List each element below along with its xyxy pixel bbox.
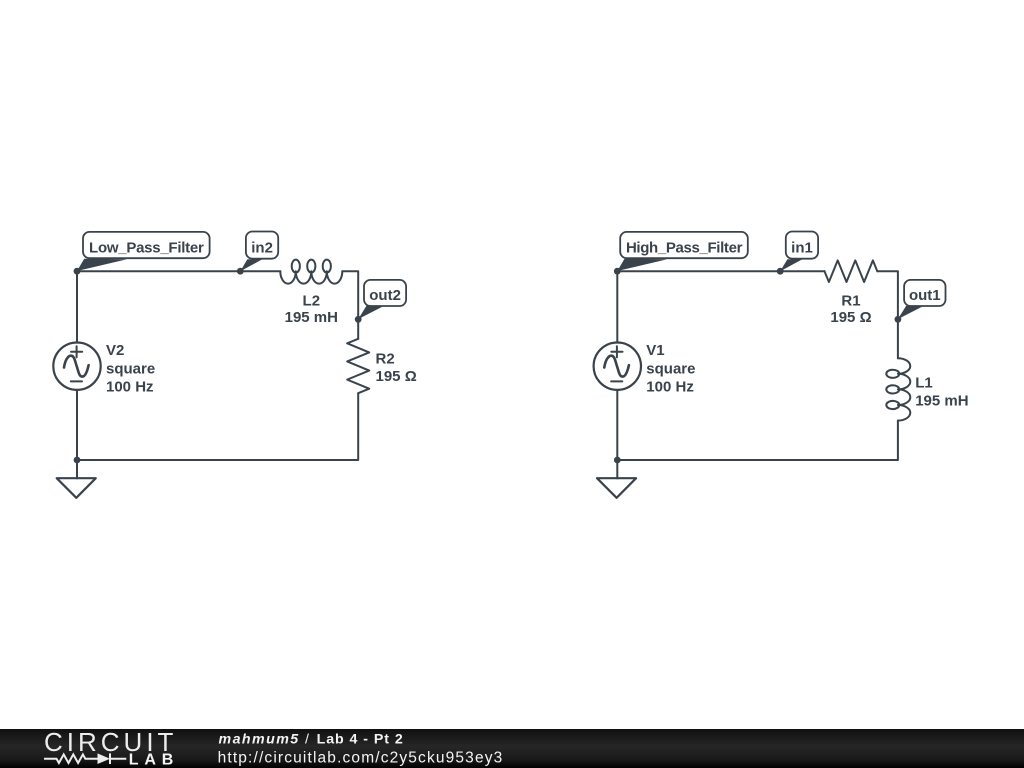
svg-text:195 Ω: 195 Ω bbox=[830, 309, 871, 326]
svg-text:http://circuitlab.com/c2y5cku9: http://circuitlab.com/c2y5cku953ey3 bbox=[218, 750, 504, 767]
svg-text:in1: in1 bbox=[791, 240, 813, 257]
svg-text:V2: V2 bbox=[106, 342, 124, 359]
svg-text:square: square bbox=[106, 360, 155, 377]
svg-text:R1: R1 bbox=[841, 293, 860, 310]
svg-text:195 mH: 195 mH bbox=[285, 309, 338, 326]
svg-text:195 mH: 195 mH bbox=[915, 392, 968, 409]
svg-text:R2: R2 bbox=[376, 350, 395, 367]
svg-text:L2: L2 bbox=[303, 293, 321, 310]
svg-text:out2: out2 bbox=[369, 287, 401, 304]
svg-text:L1: L1 bbox=[915, 374, 933, 391]
svg-text:Low_Pass_Filter: Low_Pass_Filter bbox=[89, 240, 204, 257]
svg-text:out1: out1 bbox=[909, 287, 941, 304]
svg-text:195 Ω: 195 Ω bbox=[376, 368, 417, 385]
svg-text:LAB: LAB bbox=[129, 752, 179, 768]
svg-text:in2: in2 bbox=[251, 240, 273, 257]
svg-text:High_Pass_Filter: High_Pass_Filter bbox=[626, 240, 743, 257]
svg-text:square: square bbox=[646, 360, 695, 377]
svg-text:100 Hz: 100 Hz bbox=[646, 379, 694, 396]
svg-text:100 Hz: 100 Hz bbox=[106, 379, 154, 396]
svg-text:V1: V1 bbox=[646, 342, 664, 359]
